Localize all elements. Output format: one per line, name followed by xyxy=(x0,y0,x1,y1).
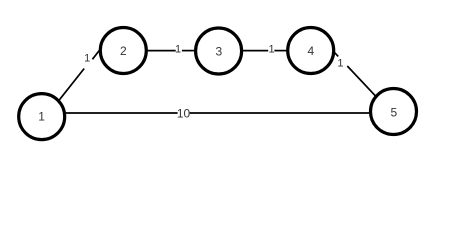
node 5 circle xyxy=(371,89,417,135)
wire edge 3-4 segment b xyxy=(274,50,290,52)
node 2 circle xyxy=(100,28,146,74)
svg-text:1: 1 xyxy=(175,43,181,55)
wire edge 4-5 segment a xyxy=(333,50,339,56)
svg-text:4: 4 xyxy=(307,44,314,58)
wire edge 2-3 segment b xyxy=(182,50,196,52)
wire edge 3-4 segment a xyxy=(241,50,268,52)
svg-text:1: 1 xyxy=(38,109,45,123)
wire edge 1-2 segment a xyxy=(58,69,85,103)
node 4 circle xyxy=(288,28,334,74)
wire edge 2-3 segment a xyxy=(145,50,176,52)
svg-text:1: 1 xyxy=(268,44,274,56)
svg-text:2: 2 xyxy=(120,44,127,58)
node 1 circle xyxy=(19,94,65,140)
svg-text:3: 3 xyxy=(215,45,222,59)
wire edge 4-5 segment b xyxy=(347,66,378,98)
node 3 circle xyxy=(196,28,242,74)
svg-text:5: 5 xyxy=(390,106,397,120)
svg-text:10: 10 xyxy=(177,107,191,121)
wire edge 1-5 segment b xyxy=(190,112,370,114)
wire edge 1-5 segment a xyxy=(64,112,178,114)
svg-text:1: 1 xyxy=(84,53,90,65)
wire edge 1-2 segment b xyxy=(92,48,101,59)
svg-text:1: 1 xyxy=(337,58,343,70)
